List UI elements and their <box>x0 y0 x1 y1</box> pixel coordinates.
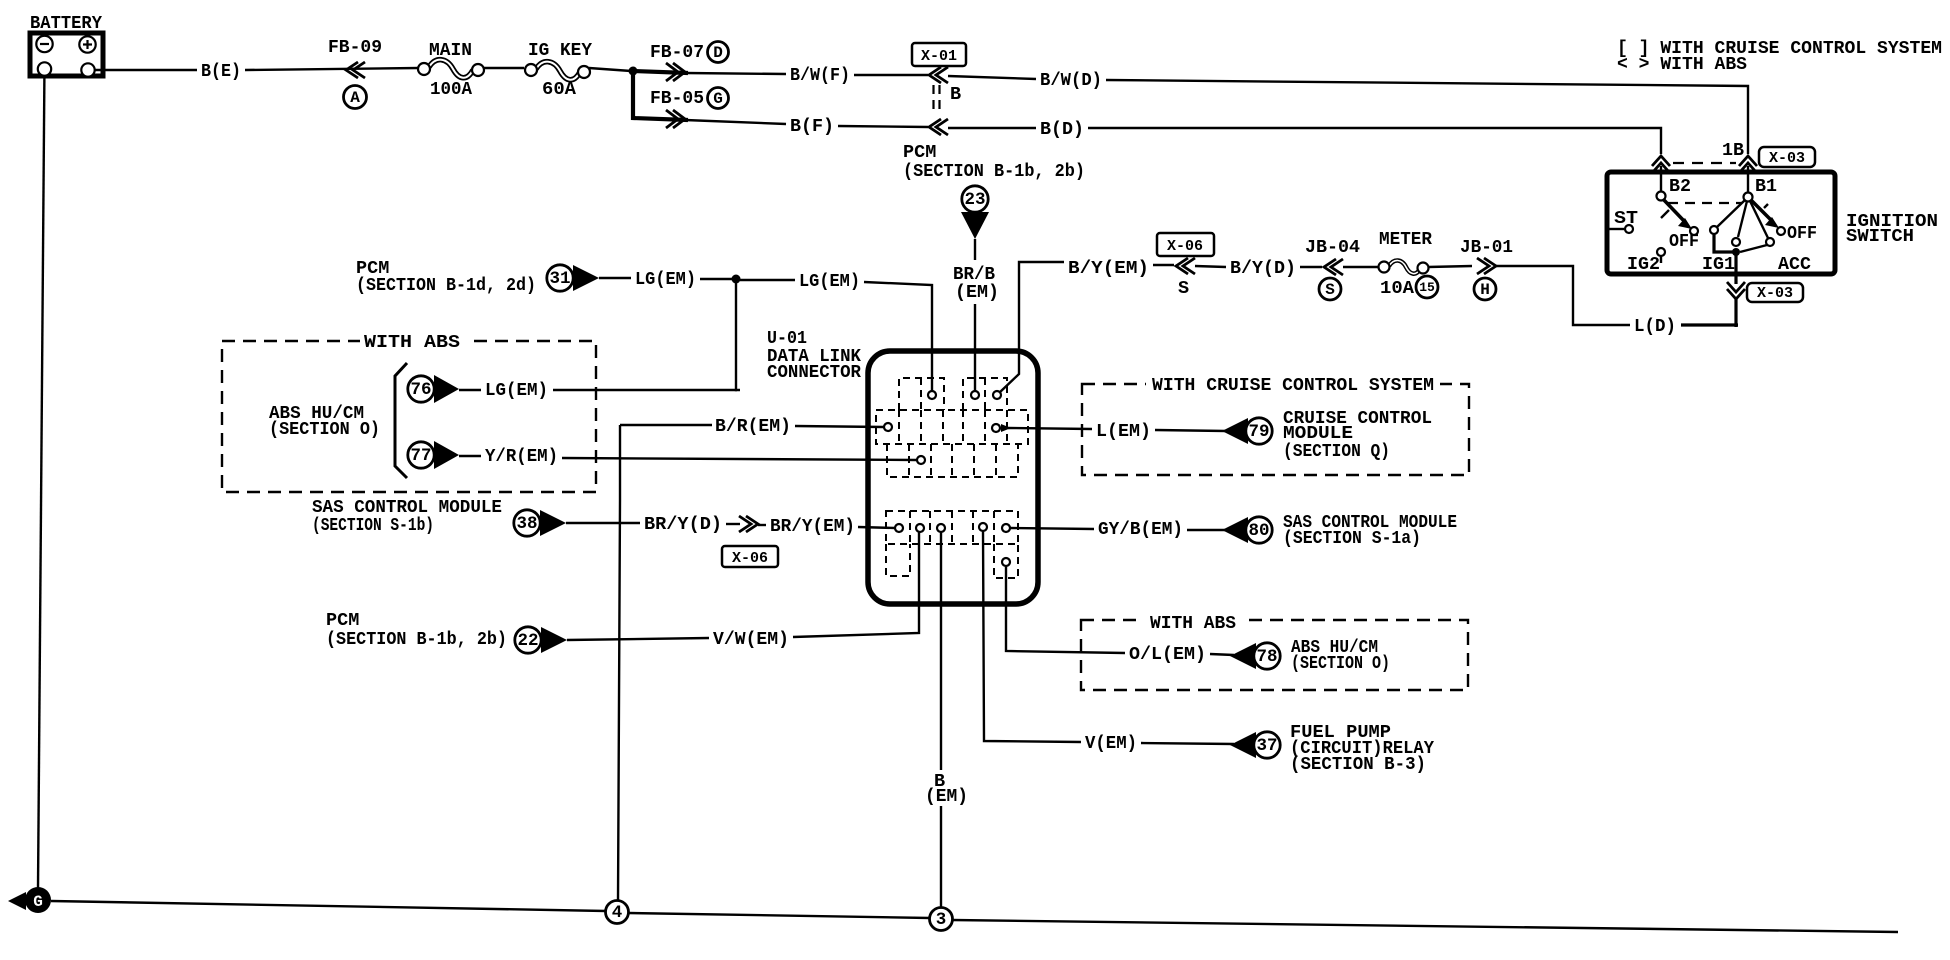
svg-text:79: 79 <box>1248 422 1269 442</box>
svg-text:X-01: X-01 <box>921 48 957 65</box>
contact circle middle <box>1732 238 1740 246</box>
switch arm B2 to OFF with arrowhead <box>1663 199 1699 252</box>
svg-text:B(D): B(D) <box>1040 119 1084 140</box>
wire B(E) to fuse MAIN <box>245 68 419 70</box>
svg-text:23: 23 <box>964 190 985 210</box>
svg-text:G: G <box>713 90 723 108</box>
node 15 circled <box>1416 276 1438 298</box>
node A circled <box>344 86 367 109</box>
node D circled <box>708 42 729 63</box>
arrow from 38 <box>540 510 566 536</box>
wire JB-01 right then down to L(D) <box>1496 266 1630 325</box>
pin Y/R(EM) <box>917 456 925 464</box>
svg-text:15: 15 <box>1419 280 1435 295</box>
svg-text:1B: 1B <box>1722 140 1744 161</box>
wire V(EM) from DLC pin down and right <box>983 531 1081 742</box>
wire junction down to 76 row <box>736 283 740 390</box>
svg-text:FB-07: FB-07 <box>650 42 704 63</box>
connector JB-01 chevron <box>1460 237 1513 274</box>
arrow from 22 <box>541 627 567 653</box>
svg-text:77: 77 <box>410 446 431 466</box>
switch arm B1 middle contact <box>1738 201 1747 237</box>
arrow into 80 <box>1222 517 1248 543</box>
wire LG(EM) into DLC pin <box>864 282 932 391</box>
svg-text:GY/B(EM): GY/B(EM) <box>1098 519 1183 540</box>
wire B/Y(D) to JB-04 <box>1300 266 1322 268</box>
svg-text:80: 80 <box>1248 521 1269 541</box>
svg-text:(SECTION B-3): (SECTION B-3) <box>1290 754 1426 775</box>
node 38 circled <box>514 510 540 536</box>
svg-text:OFF: OFF <box>1669 231 1699 252</box>
svg-text:METER: METER <box>1379 229 1433 250</box>
svg-text:G: G <box>33 893 43 911</box>
node G circled <box>708 88 729 109</box>
connector X-06 label box <box>1157 233 1214 256</box>
module ABS HU/CM right <box>1291 637 1390 674</box>
wire IG KEY to junction <box>589 68 631 71</box>
svg-text:L(D): L(D) <box>1634 316 1676 337</box>
wire 76 to LG(EM) <box>459 389 481 391</box>
switch IGNITION SWITCH body <box>1607 172 1938 274</box>
connector JB-04 chevron <box>1305 237 1360 275</box>
wire L(EM) from DLC pin with arrowhead <box>1001 424 1092 432</box>
wire junction to FB-07 <box>633 71 688 73</box>
svg-text:JB-01: JB-01 <box>1460 237 1513 258</box>
svg-text:X-03: X-03 <box>1769 150 1805 167</box>
pin O/L(EM) <box>1002 558 1010 566</box>
pin B/Y(EM) <box>993 391 1001 399</box>
connector FB-05 chevron <box>650 88 704 128</box>
wire X-03 down to L(D) corner <box>1734 299 1737 327</box>
svg-text:(EM): (EM) <box>925 786 968 807</box>
wire B(EM) to node 3 <box>940 806 942 908</box>
svg-text:IG1: IG1 <box>1702 254 1735 275</box>
terminal B2 <box>1657 176 1692 201</box>
svg-text:FB-09: FB-09 <box>328 37 382 58</box>
switch tick mark <box>1661 210 1669 218</box>
module CRUISE CONTROL MODULE <box>1283 408 1432 462</box>
svg-text:X-06: X-06 <box>732 550 768 567</box>
node S circled <box>1319 278 1341 300</box>
connector X-03 top label box <box>1759 147 1815 167</box>
wire JB-04 to fuse METER <box>1343 266 1378 268</box>
wire B(EM) from DLC pin down <box>940 532 942 770</box>
connector pin box row A <box>899 378 1007 410</box>
contact circle ACC <box>1766 238 1774 246</box>
wire arrow to BR/B label <box>974 239 976 260</box>
svg-text:78: 78 <box>1256 647 1277 667</box>
node 31 circled <box>547 265 573 291</box>
svg-text:FB-05: FB-05 <box>650 88 704 109</box>
svg-text:X-03: X-03 <box>1757 285 1793 302</box>
connector U-01 data link connector label <box>767 328 862 383</box>
wire BR/Y(EM) to DLC pin <box>858 527 895 528</box>
connector pin box row B <box>876 410 1028 444</box>
wire IG1 thick path to bottom <box>1714 234 1740 284</box>
svg-text:(EM): (EM) <box>955 282 999 303</box>
connector X-06 chevron on BR/Y <box>739 516 758 532</box>
wire GY/B(EM) from DLC pin <box>1010 528 1094 529</box>
terminal B1 <box>1744 176 1778 202</box>
terminal ST <box>1609 208 1638 233</box>
switch dashed linkage B2-B1 <box>1668 202 1742 204</box>
wire V/W(EM) up to DLC pin <box>793 532 919 637</box>
wire ACC contact to IG1 dot <box>1740 245 1767 252</box>
wire O/L(EM) to 78 <box>1210 654 1234 655</box>
wire B1 entry below connector <box>1747 166 1749 193</box>
svg-text:38: 38 <box>516 514 537 534</box>
wire FB-05 to B(F) <box>685 120 786 124</box>
box WITH ABS right dashed <box>1081 613 1468 690</box>
node 22 circled <box>515 627 541 653</box>
svg-text:100A: 100A <box>430 79 473 100</box>
arrow from PCM 31 <box>573 265 599 291</box>
wire LG(EM) 76 to junction vertical <box>553 389 737 391</box>
svg-text:WITH ABS: WITH ABS <box>1150 613 1236 634</box>
wire GY/B(EM) to 80 <box>1187 529 1226 531</box>
contact circle left of IG1 <box>1710 226 1718 234</box>
switch arm B1 to ACC contact <box>1750 201 1768 238</box>
svg-text:S: S <box>1325 281 1335 299</box>
svg-text:B/W(F): B/W(F) <box>790 65 850 86</box>
node 23 circled <box>962 186 988 212</box>
node 80 circled <box>1246 517 1272 543</box>
node 78 circled <box>1254 643 1280 669</box>
wire B/Y(EM) to X-06 <box>1153 264 1174 266</box>
connector X-03 top chevrons and dashes <box>1652 140 1757 173</box>
svg-text:ST: ST <box>1614 208 1638 229</box>
wire B/Y(EM) from DLC pin up and right <box>999 262 1064 393</box>
connector pin box row C <box>887 444 1018 477</box>
connector X-06 chevron <box>1176 258 1195 299</box>
svg-text:BR/Y(D): BR/Y(D) <box>644 514 722 535</box>
wire METER to JB-01 <box>1428 266 1472 267</box>
pin V(EM) <box>979 523 987 531</box>
wire junction to LG(EM) second <box>740 279 795 281</box>
connector X-01 chevron on B/W line <box>929 67 948 83</box>
module ABS HU/CM label left <box>269 403 380 440</box>
module FUEL PUMP relay <box>1290 722 1435 775</box>
wire X-06 to BR/Y(EM) <box>758 524 766 526</box>
wire junction down to FB-05 <box>633 73 688 120</box>
svg-text:CONNECTOR: CONNECTOR <box>767 362 862 383</box>
wire B/W(F) to X-01 <box>854 74 928 76</box>
svg-text:X-06: X-06 <box>1167 238 1203 255</box>
svg-text:SWITCH: SWITCH <box>1846 226 1914 247</box>
svg-text:S: S <box>1178 278 1189 299</box>
svg-text:B/W(D): B/W(D) <box>1040 70 1102 91</box>
pin BR/B(EM) <box>971 391 979 399</box>
svg-text:LG(EM): LG(EM) <box>485 380 548 401</box>
wire B/W(D) to ignition switch B1 <box>1106 80 1748 154</box>
wire B/R(EM) horizontal <box>620 424 712 426</box>
wire X-01 to B(D) <box>948 127 1036 129</box>
node 4 circled <box>606 901 629 924</box>
pin B(EM) <box>937 524 945 532</box>
wire Y/R(EM) to DLC pin <box>562 458 917 460</box>
terminal IG2 <box>1627 248 1665 275</box>
svg-text:D: D <box>713 44 723 62</box>
svg-text:(SECTION S-1b): (SECTION S-1b) <box>312 515 434 536</box>
wire 77 to Y/R(EM) <box>459 455 481 457</box>
svg-text:31: 31 <box>549 269 570 289</box>
svg-text:22: 22 <box>517 631 538 651</box>
wire O/L(EM) from DLC pin down and right <box>1006 566 1125 653</box>
svg-text:IG KEY: IG KEY <box>528 40 593 61</box>
fuse METER 10A <box>1379 229 1433 299</box>
node 37 circled <box>1254 732 1280 758</box>
svg-text:B/Y(EM): B/Y(EM) <box>1068 258 1149 279</box>
module SAS CONTROL MODULE right <box>1283 512 1457 549</box>
svg-text:(SECTION B-1d, 2d): (SECTION B-1d, 2d) <box>356 275 536 296</box>
svg-text:BATTERY: BATTERY <box>30 13 103 34</box>
svg-text:LG(EM): LG(EM) <box>799 271 860 292</box>
pin LG(EM) <box>928 391 936 399</box>
switch arm B1 to IG1 contact <box>1717 200 1745 227</box>
wire label B (EM) <box>925 771 968 807</box>
svg-text:V(EM): V(EM) <box>1085 733 1137 754</box>
svg-text:76: 76 <box>410 380 431 400</box>
svg-text:ACC: ACC <box>1778 254 1811 275</box>
wire B(D) to ignition switch B2 <box>1088 128 1661 154</box>
svg-text:JB-04: JB-04 <box>1305 237 1360 258</box>
wire 31 to LG(EM) <box>599 277 631 279</box>
box WITH ABS left dashed <box>222 332 596 492</box>
arrow into 37 <box>1230 732 1256 758</box>
wire BR/Y(D) to X-06 chevron <box>726 523 740 525</box>
wire B/R(EM) to DLC pin <box>795 426 884 427</box>
connector X-01 body dashes <box>934 84 962 113</box>
wire LG(EM) to junction <box>700 278 732 280</box>
module PCM section B-1d 2d <box>356 258 536 296</box>
module PCM section B-1b 2b bottom <box>326 610 507 650</box>
junction dot <box>629 67 638 76</box>
svg-text:H: H <box>1480 281 1490 299</box>
connector FB-09 chevron <box>328 37 382 78</box>
svg-text:B2: B2 <box>1669 176 1691 197</box>
node H circled <box>1474 278 1496 300</box>
connector pin box row E <box>886 544 1018 578</box>
node 76 circled <box>408 376 434 402</box>
brace grouping 76 77 <box>395 363 407 478</box>
svg-text:B1: B1 <box>1755 176 1777 197</box>
box WITH CRUISE CONTROL SYSTEM dashed <box>1082 375 1469 475</box>
svg-text:LG(EM): LG(EM) <box>635 269 696 290</box>
svg-text:MAIN: MAIN <box>429 40 472 61</box>
pin B/R(EM) <box>884 423 892 431</box>
pin L(EM) <box>992 424 1000 432</box>
battery BATTERY <box>30 13 103 77</box>
wire FB-07 to B/W(F) <box>685 73 786 74</box>
switch arm B1 to OFF right with arrowhead <box>1751 200 1817 244</box>
arrow from 77 <box>434 441 459 469</box>
connector X-03 bottom label box <box>1747 283 1803 302</box>
svg-text:3: 3 <box>936 910 947 930</box>
pin GY/B(EM) <box>1002 524 1010 532</box>
pin BR/Y(EM) <box>895 524 903 532</box>
module PCM section B-1b 2b top <box>903 142 1085 182</box>
svg-text:(SECTION S-1a): (SECTION S-1a) <box>1283 528 1421 549</box>
connector FB-07 chevron <box>650 42 704 81</box>
wire node 3 to right end <box>952 920 1898 932</box>
svg-text:(SECTION B-1b, 2b): (SECTION B-1b, 2b) <box>903 161 1085 182</box>
wire node 4 to node 3 <box>628 913 930 918</box>
connector X-06 label box lower <box>722 546 778 567</box>
fuse MAIN 100A <box>418 40 484 100</box>
svg-text:B/R(EM): B/R(EM) <box>715 416 791 437</box>
wire X-06 to B/Y(D) <box>1195 266 1226 267</box>
svg-text:(SECTION B-1b, 2b): (SECTION B-1b, 2b) <box>326 629 507 650</box>
junction dot LG <box>732 275 741 284</box>
node 77 circled <box>408 442 434 468</box>
svg-text:B(F): B(F) <box>790 116 834 137</box>
svg-text:< > WITH ABS: < > WITH ABS <box>1617 54 1747 75</box>
svg-text:B(E): B(E) <box>201 61 241 82</box>
svg-text:B/Y(D): B/Y(D) <box>1230 258 1296 279</box>
wire battery negative down to ground <box>38 76 44 888</box>
wire B/R(EM) down to node 4 <box>618 425 620 901</box>
wire V(EM) to 37 <box>1141 743 1234 744</box>
ground G symbol <box>8 887 51 913</box>
wire MAIN to IG KEY <box>484 67 524 69</box>
svg-text:Y/R(EM): Y/R(EM) <box>485 446 558 467</box>
svg-text:WITH ABS: WITH ABS <box>364 332 460 353</box>
svg-text:O/L(EM): O/L(EM) <box>1129 644 1206 665</box>
module SAS CONTROL MODULE left <box>312 497 502 536</box>
node 3 circled <box>930 908 953 931</box>
switch tick mark right <box>1764 204 1768 208</box>
arrow from PCM 23 down <box>961 212 989 239</box>
svg-text:WITH CRUISE CONTROL SYSTEM: WITH CRUISE CONTROL SYSTEM <box>1152 375 1434 396</box>
svg-text:IG2: IG2 <box>1627 254 1660 275</box>
wire X-01 to B/W(D) <box>948 76 1036 79</box>
wire label BR/B (EM) <box>953 264 999 303</box>
svg-text:(SECTION O): (SECTION O) <box>1291 653 1390 674</box>
wire 38 to BR/Y(D) <box>566 522 640 524</box>
svg-text:L(EM): L(EM) <box>1096 421 1151 442</box>
svg-text:V/W(EM): V/W(EM) <box>713 629 789 650</box>
wire battery positive to B(E) <box>95 69 197 71</box>
svg-text:BR/Y(EM): BR/Y(EM) <box>770 516 855 537</box>
arrow into 78 <box>1230 643 1256 669</box>
svg-text:PCM: PCM <box>326 610 359 631</box>
svg-text:(SECTION O): (SECTION O) <box>269 419 380 440</box>
node 79 circled <box>1246 418 1272 444</box>
svg-text:4: 4 <box>612 903 623 923</box>
svg-text:37: 37 <box>1256 736 1277 756</box>
fuse IG KEY 60A <box>525 40 593 100</box>
svg-text:OFF: OFF <box>1787 223 1817 244</box>
connector pin box row D <box>886 511 1018 544</box>
connector X-01 chevron on B line <box>929 119 948 135</box>
wire 22 to V/W(EM) <box>567 638 709 640</box>
wire ground to node 4 <box>51 901 606 911</box>
connector U-01 body <box>868 351 1038 604</box>
svg-text:B: B <box>950 84 961 105</box>
svg-text:10A: 10A <box>1380 278 1415 299</box>
pin V/W(EM) <box>916 524 924 532</box>
connector X-03 bottom chevron <box>1727 282 1745 299</box>
svg-text:60A: 60A <box>542 79 577 100</box>
connector X-01 label box <box>912 43 966 66</box>
svg-text:A: A <box>350 89 360 107</box>
wire L(D) to ignition switch <box>1681 323 1738 326</box>
svg-text:PCM: PCM <box>903 142 936 163</box>
arrow into 79 <box>1222 418 1248 444</box>
wire BR/B to DLC pin <box>974 304 976 391</box>
wire L(EM) to 79 <box>1155 430 1226 431</box>
wire B2 entry below connector <box>1660 166 1662 193</box>
arrow from 76 <box>434 375 459 403</box>
wire B(F) to X-01 <box>838 126 928 127</box>
svg-text:(SECTION Q): (SECTION Q) <box>1283 441 1390 462</box>
